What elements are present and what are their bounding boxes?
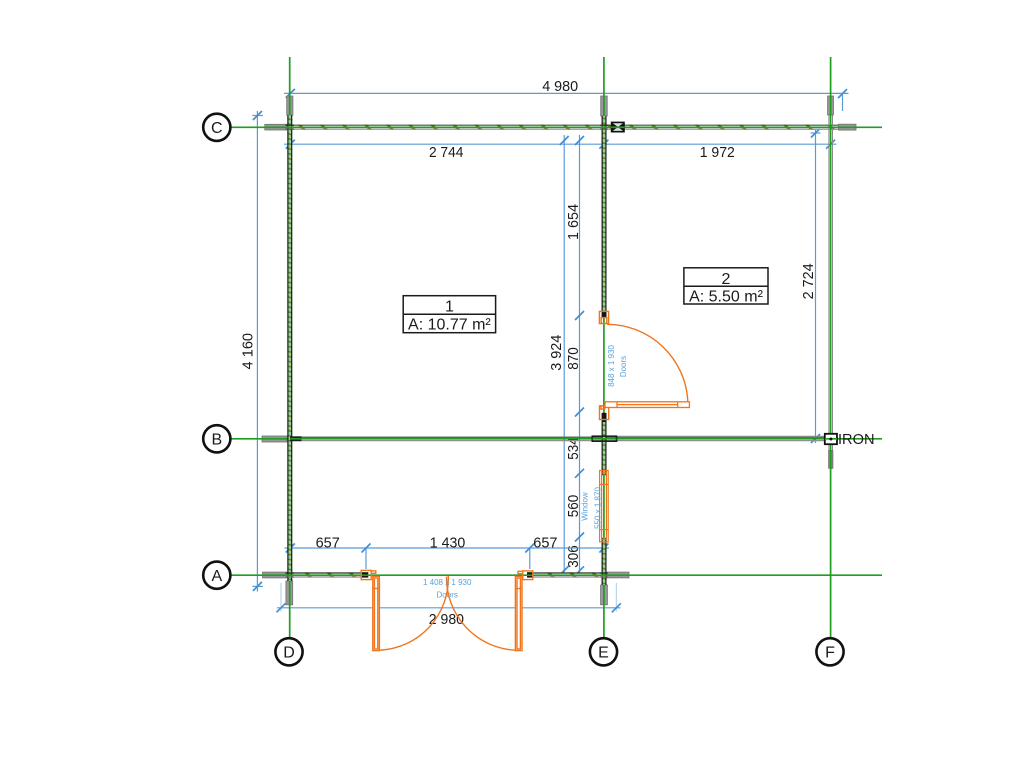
wall E lower segment (window to A) (602, 538, 607, 585)
log end cap below D (286, 581, 293, 605)
junction E x B collar redraw (592, 436, 616, 441)
door D2 left leaf (373, 576, 380, 650)
svg-text:550 x 1 870: 550 x 1 870 (594, 487, 603, 529)
svg-text:306: 306 (565, 545, 582, 568)
svg-text:1: 1 (445, 299, 454, 316)
grid line E vertical (603, 57, 605, 638)
svg-text:B: B (211, 432, 222, 449)
dimension 2 724 line (811, 129, 821, 444)
svg-text:848 x 1 930: 848 x 1 930 (607, 345, 616, 387)
dimension 2 744 / 1 972 line (284, 143, 837, 145)
log end cap below E (601, 585, 608, 605)
IRON marker square (825, 434, 837, 444)
grid bubble E (590, 638, 617, 665)
grid line B horizontal (229, 438, 882, 440)
dimension 2 724 ticks (811, 129, 820, 444)
dimension 3 924 ticks (560, 136, 569, 575)
svg-text:560: 560 (565, 495, 582, 518)
svg-text:657: 657 (316, 535, 340, 552)
svg-text:1 408 x 1 930: 1 408 x 1 930 (423, 578, 472, 587)
log end cap above F (828, 96, 834, 115)
door D2 right swing arc (446, 577, 515, 651)
log end cap left of D at C (265, 124, 287, 130)
chain ticks (575, 136, 584, 575)
svg-text:A: 10.77 m²: A: 10.77 m² (408, 316, 491, 333)
log end cap right of E at A (607, 572, 629, 578)
log end cap left of D at B (262, 436, 287, 442)
svg-text:2 980: 2 980 (429, 611, 464, 628)
svg-text:2: 2 (722, 271, 731, 288)
dimension 2 980 line (281, 583, 616, 612)
door D1 bottom jamb (600, 406, 609, 420)
svg-text:1 972: 1 972 (700, 144, 735, 161)
grid bubble A (203, 562, 230, 589)
svg-text:C: C (211, 120, 223, 137)
wall A left segment (D to door) (287, 572, 368, 577)
grid bubble D (275, 638, 302, 665)
door D2 right leaf (515, 576, 522, 650)
dimension 4 160 ticks (253, 111, 262, 591)
section marker bowtie at E/C (611, 122, 625, 131)
svg-text:2 724: 2 724 (800, 263, 817, 299)
wall B thin (E to F) (607, 435, 825, 437)
wall C (exterior top, D to F) (287, 125, 839, 130)
svg-text:3 924: 3 924 (548, 335, 565, 371)
log end cap above D (287, 96, 293, 115)
door D2 left jamb (A wall) (361, 570, 376, 579)
svg-text:4 160: 4 160 (239, 333, 256, 370)
wall F thin (C to B) (829, 115, 833, 450)
door D2 left swing arc (380, 576, 449, 650)
svg-text:1 654: 1 654 (565, 204, 582, 240)
room 1 label box (403, 296, 495, 334)
svg-text:A: A (211, 568, 222, 585)
log end cap above E (601, 96, 608, 116)
wall A right segment (door to E) (527, 572, 607, 577)
svg-text:IRON: IRON (838, 432, 875, 448)
log end cap right of F at C (839, 124, 857, 130)
svg-text:2 744: 2 744 (429, 144, 464, 161)
junction E x A redraw (600, 573, 607, 577)
dimension 4 980 line (284, 93, 849, 111)
svg-text:E: E (598, 645, 609, 662)
wall E upper segment (C to door jamb) (602, 116, 607, 317)
657/1430/657 ticks (286, 544, 609, 553)
svg-text:Doors: Doors (437, 591, 458, 600)
junction D x B redraw (290, 436, 302, 441)
2 980 ticks (277, 603, 621, 612)
svg-text:Doors: Doors (619, 356, 628, 377)
svg-text:1 430: 1 430 (430, 535, 466, 552)
svg-text:657: 657 (533, 535, 557, 552)
door D1 top jamb (E wall) (599, 311, 608, 323)
dimension 657/1430/657 line (285, 548, 610, 569)
door D1 leaf (605, 402, 689, 408)
door D2 right jamb (518, 571, 533, 580)
grid bubble C (203, 114, 230, 141)
junction D x C redraw (286, 125, 295, 129)
post stub below B at F (829, 450, 833, 468)
wall B (interior beam, D to IRON) (290, 436, 825, 441)
grid line F vertical (830, 57, 832, 638)
grid bubble B (203, 425, 230, 452)
window W1 (E wall) (600, 471, 609, 542)
door D1 swing arc (607, 324, 688, 401)
room 2 label box (684, 268, 768, 306)
junction D x A redraw (286, 573, 295, 577)
svg-text:A: 5.50 m²: A: 5.50 m² (689, 288, 763, 305)
grid line A horizontal (229, 574, 882, 576)
wall E middle segment (door jamb to window) (602, 413, 607, 476)
svg-text:870: 870 (565, 347, 582, 370)
log end cap left of D at A (263, 572, 288, 578)
wall D (exterior left, C to A) (287, 115, 292, 581)
dimension chain 1654/870/534/560/306 line (579, 135, 581, 577)
grid line C horizontal (229, 126, 882, 128)
grid bubble F (816, 638, 843, 665)
dimension 4 980 ticks (286, 89, 847, 98)
svg-text:4 980: 4 980 (542, 78, 578, 95)
grid line D vertical (289, 57, 291, 638)
svg-text:Window: Window (581, 492, 590, 521)
svg-text:F: F (825, 645, 835, 662)
dimension 3 924 line (563, 135, 565, 577)
dimension 2744/1972 ticks (286, 140, 835, 149)
junction E x C redraw (600, 125, 607, 129)
svg-text:D: D (283, 645, 295, 662)
dimension 4 160 line (252, 111, 263, 592)
